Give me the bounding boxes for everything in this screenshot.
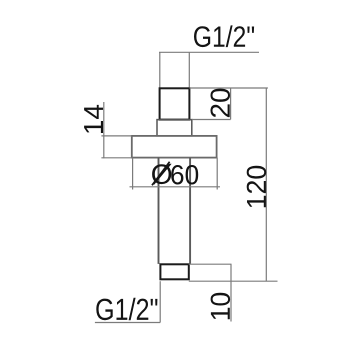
dim 20: bottom extension line (192, 119, 231, 121)
leader vertical to bottom thread corner (159, 281, 161, 322)
transition collar (157, 120, 192, 136)
dim 14: dimension line (103, 102, 105, 158)
dim 120: bottom extension line (shared with dim 10) (189, 280, 278, 282)
dim O60: right extension line (216, 158, 218, 190)
dim O60: dimension line (130, 186, 221, 188)
leader vertical right (thread major dia) (188, 52, 190, 88)
pipe body right edge (189, 158, 191, 264)
top threaded stub G1/2 (160, 88, 190, 119)
dim 20: top extension line (shared with dim 120) (189, 87, 268, 89)
label G1/2" top (194, 25, 254, 47)
dim 20: dimension line (230, 88, 232, 119)
pipe body left edge (158, 158, 160, 264)
dim 14: bottom extension line (101, 157, 131, 159)
dim 10: value text (211, 293, 231, 320)
dim 120: value text (247, 166, 266, 208)
bottom threaded stub G1/2 (160, 264, 188, 279)
dim 14: top extension line (101, 135, 131, 137)
leader underline for bottom G1/2" label (95, 322, 160, 324)
dim 20: value text (211, 89, 231, 118)
dim O60: diameter slash extension stroke (152, 162, 170, 186)
ceiling flange (132, 136, 217, 158)
dim O60: left extension line (132, 158, 134, 190)
dim 10: dimension line (230, 264, 232, 321)
label G1/2" bottom (96, 298, 157, 320)
dim 120: dimension line (265, 88, 267, 281)
dim O60: diameter symbol (152, 164, 172, 185)
dim O60: value text 60 (171, 165, 198, 185)
leader vertical left (thread major dia) (159, 52, 161, 88)
dim 14: value text (84, 105, 103, 133)
dim 10: top extension line (189, 263, 232, 265)
leader underline for top G1/2" label (159, 51, 259, 53)
